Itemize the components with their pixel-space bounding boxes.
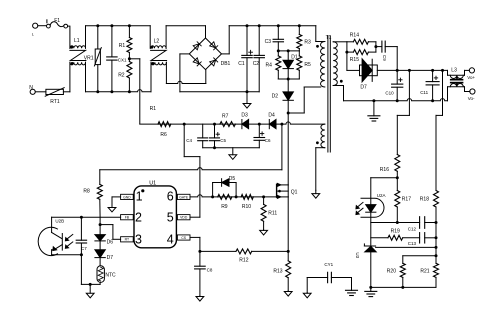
choke L1 top winding	[70, 26, 86, 49]
wire C7/emitter down	[80, 255, 82, 285]
svg-text:L1: L1	[74, 38, 80, 44]
svg-text:R18: R18	[420, 196, 429, 202]
optocoupler U2B transistor	[52, 217, 63, 255]
thermistor RT1	[45, 88, 64, 106]
svg-text:R14: R14	[350, 32, 359, 38]
svg-text:R6: R6	[160, 132, 167, 138]
resistor R17	[395, 178, 411, 223]
wire L2 bottom-right to bridge AC2	[166, 62, 205, 83]
pin number 4	[167, 232, 174, 246]
ground arrow R13	[284, 291, 292, 296]
resistor R15	[347, 50, 376, 64]
phase dot L2 top	[151, 46, 154, 49]
pin number 5	[167, 211, 174, 225]
resistor R7	[220, 114, 236, 127]
wire U3 ref line	[376, 246, 436, 248]
wire R19 line	[371, 237, 388, 239]
wire bottom rail L1-L2	[86, 90, 152, 92]
wire gate line	[190, 195, 277, 197]
capacitor C1	[238, 26, 252, 92]
svg-text:R15: R15	[350, 57, 359, 63]
node top rail CX1	[110, 24, 113, 27]
svg-text:3: 3	[135, 232, 142, 246]
wire L2 bottom-left to rail	[150, 62, 152, 92]
svg-text:R20: R20	[387, 268, 396, 274]
label L2	[154, 38, 160, 44]
svg-text:U2B: U2B	[55, 218, 64, 223]
wire NTC bottom	[81, 282, 100, 284]
node clamp D2	[287, 78, 290, 81]
node output C11	[431, 69, 434, 72]
label DB1	[221, 61, 231, 67]
optocoupler U2B light arrows	[65, 234, 73, 248]
resistor R13	[273, 251, 290, 291]
capacitor C10 (+)	[385, 70, 402, 100]
wire Vo+ sense hook (R16)	[397, 70, 409, 154]
svg-text:D7: D7	[360, 84, 367, 90]
node output C9	[396, 69, 399, 72]
wire VDD feed hook	[184, 124, 200, 217]
phase dot T1 secondary	[340, 80, 343, 83]
wire fuse to L1	[68, 26, 70, 48]
resistor R6	[158, 122, 171, 139]
terminal Vo-	[468, 89, 475, 101]
wire top rail L1-L2	[86, 25, 151, 27]
node DC rail C1	[246, 24, 249, 27]
capacitor CY1	[307, 262, 351, 283]
svg-text:VDD: VDD	[180, 216, 188, 220]
svg-text:RT: RT	[125, 238, 129, 242]
node rail C11	[431, 99, 434, 102]
capacitor C2 (+)	[249, 26, 265, 92]
pin 1 marker dot	[141, 189, 144, 192]
svg-text:R2: R2	[118, 72, 125, 78]
svg-text:L2: L2	[154, 38, 160, 44]
node output R16 tap	[408, 69, 411, 72]
svg-text:Vo-: Vo-	[468, 96, 475, 101]
choke L1 bottom winding	[70, 62, 86, 65]
earth ground secondary	[368, 101, 380, 121]
svg-text:4: 4	[167, 232, 174, 246]
earth ground CY1	[346, 290, 358, 295]
capacitor C3 (clamp)	[265, 26, 284, 51]
phase dot L2 bottom	[152, 62, 155, 65]
svg-text:2: 2	[135, 211, 142, 225]
svg-text:R8: R8	[83, 189, 90, 195]
node R17 bottom	[396, 221, 399, 224]
phase dot L3 top	[456, 76, 459, 79]
bridge diode top-left	[193, 42, 201, 50]
node drain-snubber	[287, 112, 290, 115]
ground arrow CY1	[303, 293, 311, 298]
node bottom rail VR1	[96, 90, 99, 93]
resistor R4	[266, 51, 281, 79]
resistor R1 (divider)	[119, 26, 132, 59]
svg-text:C9: C9	[382, 55, 387, 61]
svg-text:D3: D3	[241, 112, 248, 118]
node fb divider R20	[435, 254, 438, 257]
bridge diode bottom-right	[210, 58, 218, 66]
wire bridge plus to DC rail	[222, 26, 316, 54]
node top rail R1	[128, 24, 131, 27]
ground arrow pin1	[108, 207, 116, 212]
svg-text:U1: U1	[149, 180, 156, 186]
wire CY1 right leg	[351, 278, 353, 291]
wire aux caps ground bus	[203, 147, 260, 149]
pin box CS (pin4)	[177, 235, 190, 240]
svg-text:C7: C7	[81, 246, 87, 251]
svg-text:CX1: CX1	[118, 57, 127, 62]
resistor R2 (divider)	[118, 59, 132, 92]
node output R18 tap	[441, 69, 444, 72]
wire secondary bottom lead	[333, 86, 343, 101]
svg-text:R5: R5	[304, 62, 311, 68]
IC U1 body	[134, 180, 176, 247]
svg-text:U2A: U2A	[377, 193, 386, 198]
ground arrow FB return	[86, 284, 94, 297]
capacitor C8	[195, 251, 213, 296]
capacitor C6 (+)	[254, 124, 271, 148]
phase dot T1 aux	[316, 141, 319, 144]
svg-text:R9: R9	[221, 204, 228, 210]
svg-text:N: N	[29, 85, 33, 91]
svg-text:C1: C1	[238, 61, 245, 67]
node bottom rail R2	[128, 90, 131, 93]
wire C12 line	[371, 222, 420, 224]
node bottom rail CX1	[110, 90, 113, 93]
svg-text:D4: D4	[268, 112, 275, 118]
capacitor C9	[376, 41, 397, 70]
svg-text:CY1: CY1	[324, 262, 333, 267]
transformer T1 aux winding	[321, 124, 325, 148]
svg-text:C5: C5	[220, 138, 226, 143]
wire CY1 left leg	[306, 278, 308, 293]
transformer T1 secondary winding	[333, 42, 337, 86]
svg-text:GATE: GATE	[179, 195, 189, 199]
transistor Q1	[277, 183, 298, 198]
svg-text:R17: R17	[402, 196, 411, 202]
label L1	[74, 38, 80, 44]
node FB C7	[80, 216, 83, 219]
wire LED cathode	[370, 212, 372, 246]
node FB return gnd	[89, 283, 92, 286]
svg-text:C10: C10	[385, 91, 394, 96]
wire fb ground line	[371, 286, 436, 288]
ground arrow aux winding	[312, 190, 320, 198]
node DC rail R3	[298, 24, 301, 27]
phase dot L1 top	[70, 46, 73, 49]
node CS	[198, 250, 201, 253]
svg-text:R11: R11	[268, 210, 277, 216]
wire RT1 to L1	[63, 91, 70, 93]
wire D6 chain top	[99, 217, 101, 224]
wire fb divider vertical	[435, 223, 437, 264]
bridge diode bottom-left	[193, 58, 201, 66]
node clamp D1 top	[287, 49, 290, 52]
node C7 bottom	[80, 253, 83, 256]
resistor R12	[236, 249, 252, 264]
resistor R3	[297, 26, 311, 51]
capacitor C7	[76, 217, 87, 255]
node top rail VR1	[96, 24, 99, 27]
pin number 3	[135, 232, 142, 246]
resistor R11	[261, 197, 277, 230]
svg-text:R1: R1	[119, 43, 126, 49]
wire aux/VDD line	[140, 122, 325, 124]
primary ground arrow (rail)	[243, 92, 251, 108]
node clamp C3	[277, 49, 280, 52]
svg-text:Vo+: Vo+	[467, 75, 475, 80]
choke L3 top winding	[448, 70, 470, 78]
svg-text:D2: D2	[272, 94, 279, 100]
diode D4	[268, 112, 276, 128]
phase dot T1 primary	[316, 45, 319, 48]
svg-text:R19: R19	[391, 229, 400, 235]
node RT tap	[99, 223, 102, 226]
shunt regulator U3	[355, 244, 376, 288]
diode D2	[272, 79, 294, 113]
node C9 tap	[374, 45, 377, 48]
wire U2B emitter bus	[52, 254, 82, 256]
ground arrow aux caps	[229, 148, 237, 160]
svg-text:6: 6	[167, 189, 174, 203]
label L3	[451, 68, 457, 74]
wire snubber left	[346, 42, 348, 71]
bridge rectifier DB1 outline	[189, 38, 221, 70]
wire drain node to primary bottom	[288, 87, 321, 113]
capacitor C11 (+)	[420, 70, 439, 100]
resistor R14	[347, 32, 376, 44]
diode D1	[283, 51, 298, 79]
optocoupler U2A envelope	[361, 193, 386, 217]
pin box FB (pin2)	[121, 215, 134, 220]
svg-text:R13: R13	[273, 268, 282, 274]
node aux line VDD right	[280, 123, 283, 126]
terminal Vo+	[467, 68, 475, 80]
phase dot L1 bottom	[71, 62, 74, 65]
node fb gnd R20	[401, 286, 404, 289]
svg-text:C2: C2	[253, 61, 260, 67]
wire LED hook	[371, 178, 398, 205]
wire FB line	[52, 216, 121, 218]
svg-text:Q1: Q1	[291, 189, 298, 195]
resistor R19	[388, 229, 420, 241]
node aux line C5	[213, 123, 216, 126]
wire RT hook	[100, 225, 121, 240]
wire secondary top lead	[333, 41, 347, 43]
wire divider sense to R6 line	[129, 59, 139, 124]
pin box GATE (pin6)	[177, 194, 190, 199]
wire aux right to VDD line	[281, 124, 283, 170]
node DC rail C3	[277, 24, 280, 27]
svg-text:5: 5	[167, 211, 174, 225]
svg-text:R21: R21	[420, 268, 429, 274]
svg-text:R12: R12	[239, 258, 248, 264]
capacitor C4	[186, 124, 207, 148]
svg-text:R4: R4	[266, 63, 273, 69]
node fb divider C12	[435, 221, 438, 224]
optocoupler U2B envelope	[38, 218, 64, 255]
svg-text:RT1: RT1	[50, 99, 60, 105]
svg-text:R3: R3	[304, 39, 311, 45]
wire CS line right	[252, 250, 289, 252]
pin number 6	[167, 189, 174, 203]
wire Q1 source down	[287, 197, 289, 252]
svg-text:R7: R7	[222, 114, 229, 120]
svg-text:FB: FB	[125, 216, 130, 220]
rectifier D7 (output)	[347, 59, 397, 91]
wire L1 bottom leads	[70, 62, 86, 92]
node gate R11	[262, 195, 265, 198]
wire bridge minus to primary ground rail	[180, 54, 189, 92]
choke L2 top winding	[150, 26, 166, 49]
node fb divider C13	[435, 236, 438, 239]
resistor R10	[241, 194, 253, 210]
svg-text:C8: C8	[207, 267, 213, 272]
choke L2 bottom winding	[151, 62, 166, 65]
capacitor CX1	[107, 26, 127, 92]
varistor VR1	[84, 26, 102, 92]
node rail C1 bottom	[246, 90, 249, 93]
svg-text:DB1: DB1	[221, 61, 231, 67]
node fb divider ref	[435, 246, 438, 249]
wire N to RT1	[35, 91, 46, 93]
earth ground U3	[365, 287, 377, 296]
svg-text:GND: GND	[123, 195, 131, 199]
node R15 left	[345, 51, 348, 54]
ground arrow C8	[196, 296, 204, 301]
capacitor C5 (+)	[210, 124, 227, 148]
node aux line C6	[258, 123, 261, 126]
wire CS pin hook	[190, 237, 200, 251]
svg-text:C6: C6	[265, 138, 271, 143]
transformer T1 primary winding	[321, 42, 325, 88]
svg-text:C11: C11	[420, 90, 428, 95]
resistor R9	[218, 194, 232, 210]
node rail earth	[372, 99, 375, 102]
node fb gnd U3	[369, 286, 372, 289]
thermistor NTC	[97, 266, 116, 283]
resistor R18	[420, 191, 439, 223]
diode D3	[241, 112, 248, 128]
node DC rail C2	[258, 24, 261, 27]
wire secondary ground rail	[344, 99, 448, 101]
svg-text:C13: C13	[408, 241, 417, 246]
svg-text:VR1: VR1	[84, 55, 94, 61]
pin number 2	[135, 211, 142, 225]
wire clamp node1	[278, 50, 299, 52]
svg-text:R10: R10	[242, 204, 251, 210]
capacitor C13	[408, 233, 436, 246]
node gate D5 left	[211, 195, 214, 198]
wire Vo+ sense hook (R18)	[436, 70, 443, 190]
wire VDD line to R8	[100, 168, 282, 170]
resistor R20	[387, 263, 406, 287]
svg-text:C12: C12	[408, 226, 417, 231]
svg-text:U3: U3	[355, 252, 360, 258]
pin number 1	[136, 189, 143, 203]
diode D7 (FB chain)	[95, 250, 113, 266]
node gate R9 right	[235, 195, 238, 198]
svg-text:D6: D6	[107, 240, 114, 246]
node R16 bottom	[396, 176, 399, 179]
choke L2 core	[151, 50, 167, 60]
resistor R8	[83, 170, 102, 217]
node rail C10	[396, 99, 399, 102]
svg-text:F1: F1	[54, 18, 60, 24]
choke L3 core	[451, 80, 463, 83]
terminal L (line input)	[32, 23, 38, 36]
wire primary ground rail	[180, 91, 259, 93]
capacitor C12	[408, 217, 436, 232]
svg-text:CS: CS	[181, 236, 186, 240]
svg-text:R1: R1	[150, 106, 157, 112]
svg-text:C3: C3	[265, 39, 272, 45]
node Q1 body	[278, 190, 281, 193]
wire CS line left	[200, 250, 236, 252]
label T1	[326, 35, 332, 41]
fuse F1	[47, 18, 68, 28]
svg-text:C4: C4	[186, 138, 192, 143]
transformer T1 core	[328, 36, 330, 152]
svg-text:D7: D7	[107, 255, 114, 261]
ground arrow R11	[260, 230, 268, 235]
choke L1 core	[70, 50, 86, 60]
label R1 (startup line)	[150, 106, 157, 112]
wire snubber right	[375, 42, 377, 52]
resistor R16	[380, 155, 400, 178]
wire DC rail to primary top	[316, 26, 325, 42]
pin box GND (pin1)	[121, 194, 134, 199]
wire drain riser	[287, 113, 289, 185]
node aux line VDD hook	[183, 123, 186, 126]
wire R20 hook	[403, 256, 436, 263]
node Q1 source	[287, 250, 290, 253]
terminal N (neutral input)	[29, 85, 35, 95]
svg-text:1: 1	[136, 189, 143, 203]
choke L3 bottom winding	[448, 84, 470, 101]
bridge diode top-right	[210, 42, 218, 50]
svg-text:L3: L3	[451, 68, 457, 74]
wire output line	[397, 69, 447, 71]
svg-text:D5: D5	[229, 176, 236, 182]
optocoupler U2A LED	[366, 205, 376, 213]
wire clamp node2	[278, 78, 299, 80]
node R1-R2 divider	[128, 57, 131, 60]
svg-text:NTC: NTC	[105, 272, 116, 278]
svg-text:R16: R16	[380, 167, 389, 173]
diode D5 loop	[213, 176, 237, 197]
optocoupler U2A light arrows	[356, 202, 363, 214]
wire pin1 to ground	[112, 197, 121, 207]
wire L2 top to bridge AC1	[166, 26, 205, 38]
wire L terminal to fuse	[38, 25, 47, 27]
node caps bus C5	[213, 146, 216, 149]
resistor R5	[297, 51, 311, 79]
resistor R21	[420, 263, 438, 287]
pin box VDD (pin5)	[177, 215, 190, 220]
pin box RT (pin3)	[121, 237, 134, 242]
diode D6	[95, 225, 113, 250]
wire aux bottom to ground	[316, 148, 325, 191]
phase dot L3 bottom	[456, 83, 459, 86]
